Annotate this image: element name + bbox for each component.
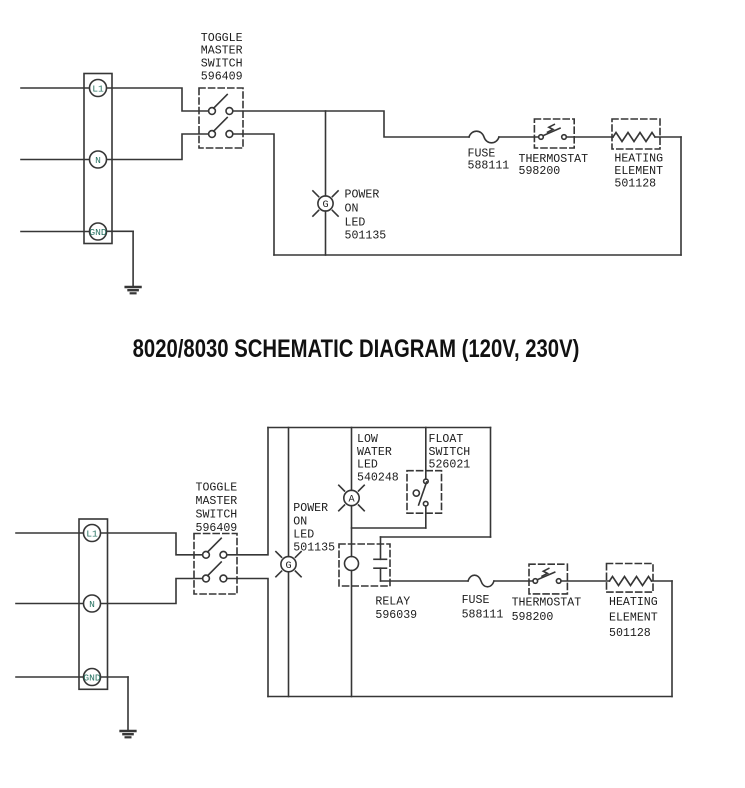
svg-text:GND: GND (89, 227, 107, 238)
svg-text:596409: 596409 (196, 522, 238, 535)
svg-text:HEATING: HEATING (609, 596, 658, 609)
svg-text:POWER: POWER (293, 502, 328, 515)
svg-text:HEATING: HEATING (614, 152, 663, 165)
svg-text:LOW: LOW (357, 433, 378, 446)
svg-text:501135: 501135 (345, 230, 387, 243)
svg-text:ON: ON (345, 202, 359, 215)
svg-text:FUSE: FUSE (462, 594, 490, 607)
svg-text:N: N (89, 599, 95, 610)
svg-text:WATER: WATER (357, 446, 392, 459)
svg-text:526021: 526021 (429, 459, 471, 472)
svg-text:SWITCH: SWITCH (196, 508, 238, 521)
svg-text:SWITCH: SWITCH (429, 446, 471, 459)
svg-text:L1: L1 (86, 528, 98, 539)
svg-text:540248: 540248 (357, 472, 399, 485)
svg-text:501128: 501128 (614, 177, 656, 190)
svg-text:MASTER: MASTER (196, 495, 238, 508)
svg-text:501128: 501128 (609, 627, 651, 640)
svg-text:L1: L1 (92, 83, 104, 94)
svg-text:LED: LED (293, 529, 314, 542)
svg-text:LED: LED (357, 459, 378, 472)
svg-text:G: G (322, 200, 328, 211)
svg-text:LED: LED (345, 216, 366, 229)
svg-text:GND: GND (83, 672, 101, 683)
svg-text:598200: 598200 (512, 611, 554, 624)
svg-text:588111: 588111 (468, 160, 510, 173)
svg-text:ELEMENT: ELEMENT (609, 611, 658, 624)
svg-text:N: N (95, 155, 101, 166)
svg-text:THERMOSTAT: THERMOSTAT (519, 153, 589, 166)
svg-text:501135: 501135 (293, 542, 335, 555)
svg-text:THERMOSTAT: THERMOSTAT (512, 597, 582, 610)
svg-text:596409: 596409 (201, 71, 243, 84)
svg-text:8020/8030 SCHEMATIC DIAGRAM (1: 8020/8030 SCHEMATIC DIAGRAM (120V, 230V) (133, 335, 580, 362)
svg-text:POWER: POWER (345, 189, 380, 202)
svg-text:ON: ON (293, 515, 307, 528)
svg-text:G: G (285, 561, 291, 572)
svg-text:MASTER: MASTER (201, 44, 243, 57)
svg-text:588111: 588111 (462, 609, 504, 622)
svg-text:RELAY: RELAY (375, 596, 410, 609)
svg-text:FLOAT: FLOAT (429, 433, 464, 446)
svg-text:598200: 598200 (519, 165, 561, 178)
svg-text:TOGGLE: TOGGLE (201, 32, 243, 45)
svg-text:FUSE: FUSE (468, 147, 496, 160)
svg-text:ELEMENT: ELEMENT (614, 165, 663, 178)
svg-text:TOGGLE: TOGGLE (196, 482, 238, 495)
svg-text:A: A (348, 495, 355, 506)
svg-text:596039: 596039 (375, 609, 417, 622)
svg-text:SWITCH: SWITCH (201, 58, 243, 71)
